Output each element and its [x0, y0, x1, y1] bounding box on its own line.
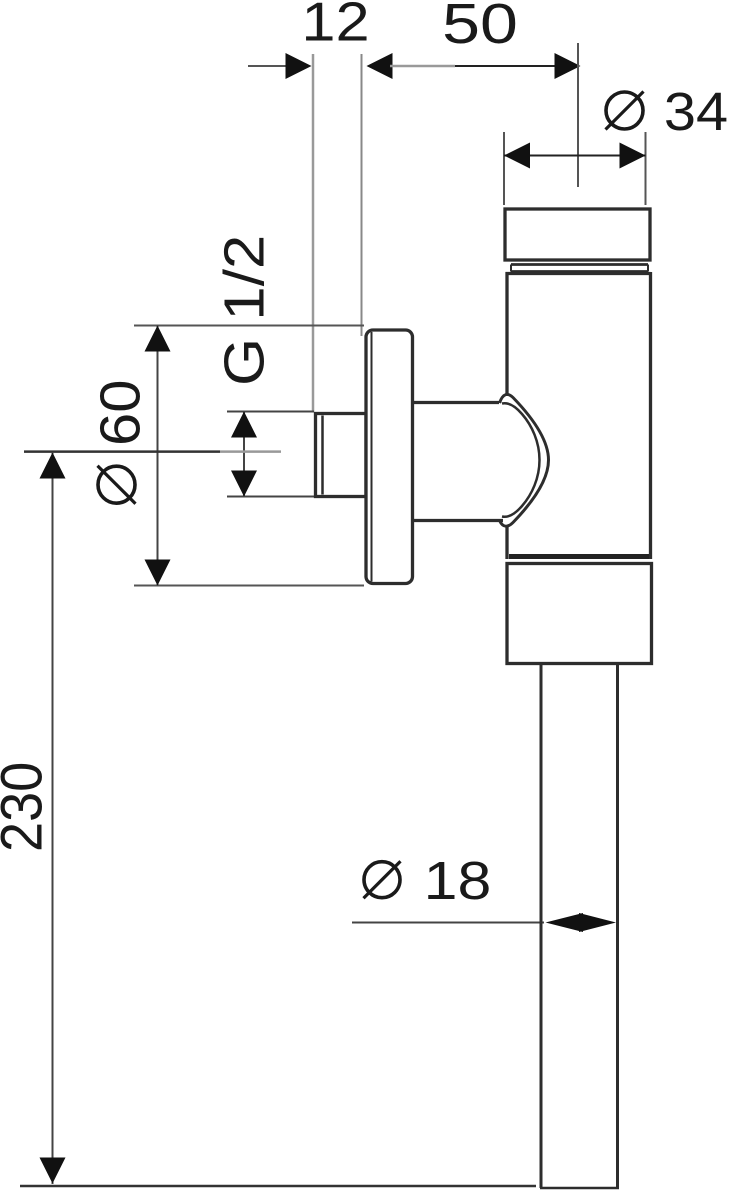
arrow up (Ø60 top) [145, 326, 171, 352]
arrow down (G1/2 bottom) [231, 471, 257, 497]
lower body section [507, 564, 652, 664]
wire: 230 dim vertical line [52, 452, 54, 1184]
inlet pipe top line [413, 401, 499, 404]
arrow down (Ø60 bottom) [145, 560, 171, 586]
wire: Ø60 dim vertical line [157, 326, 159, 586]
wire: Ø60 bottom reference line [134, 585, 364, 587]
arrow left-pointing (Ø34 left) [504, 143, 530, 169]
arrow right-pointing (12 left) [286, 53, 312, 79]
extension line 12 b [361, 54, 363, 336]
arrow up (230 top) [40, 453, 66, 479]
arrow right-pointing (Ø34 right) [620, 143, 646, 169]
outlet pipe left wall [540, 664, 543, 1188]
wall flange [366, 330, 413, 584]
wire: bottom reference line [20, 1185, 536, 1188]
wire: Ø60 top reference line [134, 325, 364, 327]
inlet bulge inner curve [502, 403, 540, 517]
extension line Ø34 left [503, 132, 505, 205]
wire: G1/2 dim vertical line [243, 412, 245, 497]
diameter symbol of Ø 18 [364, 861, 401, 898]
wire: 12 dim leader line left [248, 65, 293, 67]
wire: Ø34 dim line [504, 155, 646, 157]
body bottom seam [509, 554, 649, 559]
svg-text:18: 18 [424, 851, 492, 911]
valve main body [506, 272, 651, 559]
arrow left-pointing (Ø18 left at pipe wall) [546, 913, 584, 932]
arrow right-pointing (Ø18 right at pipe wall) [579, 913, 616, 932]
arrow up (G1/2 top) [231, 412, 257, 438]
svg-text:G 1/2: G 1/2 [213, 235, 276, 386]
inlet bulge outer curve [500, 394, 549, 526]
valve ring below cap [511, 263, 648, 266]
arrow right-pointing (50 right) [555, 53, 581, 79]
diameter symbol of Ø 34 [606, 92, 644, 130]
wire: 50 dim line [390, 65, 455, 68]
arrow down (230 bottom) [40, 1158, 66, 1184]
svg-text:230: 230 [0, 762, 54, 852]
wire: G1/2 bottom reference line [227, 496, 316, 498]
arrow left-pointing (50 left) [367, 53, 393, 79]
flange face line [371, 332, 373, 582]
svg-text:50: 50 [442, 0, 518, 56]
nut G1/2 [316, 414, 367, 497]
extension line 12 a [312, 54, 315, 412]
centerline of inlet [24, 450, 220, 453]
centerline top of valve [577, 43, 579, 187]
inlet pipe bottom line [413, 519, 503, 522]
svg-text:12: 12 [301, 0, 369, 53]
svg-text:34: 34 [664, 82, 728, 142]
outlet pipe bottom [540, 1187, 619, 1190]
extension line Ø34 right [645, 132, 647, 205]
wire: Ø18 leader line [352, 922, 544, 924]
svg-text:60: 60 [89, 379, 152, 446]
outlet pipe right wall [616, 664, 619, 1188]
wire: G1/2 top reference line [227, 411, 314, 413]
diameter symbol of Ø 60 (rotated) [98, 466, 136, 504]
valve top cap [505, 209, 650, 260]
